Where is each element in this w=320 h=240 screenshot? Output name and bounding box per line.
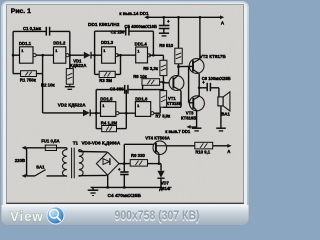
svg-text:DD1.6: DD1.6 (135, 97, 148, 102)
wire R3 left (95, 73, 100, 76)
node к выв.7 DD1 (186, 125, 190, 129)
svg-text:С1 0,1мк: С1 0,1мк (23, 26, 42, 31)
wire VT3 emitter + ground (195, 110, 198, 128)
wire C1 right drop (68, 31, 71, 55)
svg-text:BA1: BA1 (221, 112, 230, 117)
svg-text:VD7: VD7 (161, 180, 170, 185)
wire R4 left (96, 127, 102, 130)
svg-text:VT2 КТ817Б: VT2 КТ817Б (200, 54, 227, 59)
svg-text:View: View (10, 209, 44, 224)
wire R7 bottom to VT1 emitter (163, 106, 181, 109)
wire VT4 emitter down (157, 153, 160, 163)
wire VD1 to DD1.3 (91, 54, 101, 57)
wire R3 right (115, 73, 120, 76)
wire C2 top (95, 30, 126, 33)
svg-text:R1 750к: R1 750к (20, 77, 37, 82)
wire bottom rail (91, 186, 161, 189)
svg-text:VD3-VD6 К,Д906А: VD3-VD6 К,Д906А (82, 141, 121, 146)
wire left vertical (12, 31, 15, 73)
svg-text:С4 470мкХ25Б: С4 470мкХ25Б (108, 193, 142, 199)
wire BA1 to ground (219, 106, 222, 128)
resistor R3 3М (99, 71, 115, 77)
svg-text:Д814Г: Д814Г (159, 186, 172, 191)
wire R1 right (36, 72, 42, 75)
wire DD1.1 input (13, 54, 19, 57)
svg-text:R3 3М: R3 3М (99, 78, 112, 83)
wire VT2 emitter (198, 74, 201, 96)
svg-text:С2 150: С2 150 (111, 29, 125, 34)
wire R6 left drop (141, 85, 144, 89)
wire R1 left (13, 72, 21, 75)
node A arrow bottom (213, 144, 229, 147)
svg-text:R7 3,9к: R7 3,9к (155, 114, 171, 119)
wire R6 right (160, 81, 164, 84)
svg-text:С5 4000мкХ16Б: С5 4000мкХ16Б (124, 24, 157, 29)
svg-text:DD1.3: DD1.3 (101, 40, 114, 45)
svg-text:900x758 (307 КВ): 900x758 (307 КВ) (115, 208, 200, 223)
wire C3 mid drop (125, 90, 128, 129)
wire bridge minus down (106, 175, 109, 187)
wire DD1.2 out (69, 54, 84, 57)
svg-text:R2 10к: R2 10к (41, 82, 55, 87)
transformer core (71, 148, 73, 179)
svg-text:R8 510: R8 510 (159, 43, 173, 48)
speaker BA1 (217, 88, 220, 97)
ground under R2 (69, 84, 71, 87)
wire C1 top (13, 30, 46, 33)
resistor R2 10k (68, 55, 71, 68)
scan bottom shadow line (6, 202, 243, 205)
wire feedback vertical (41, 55, 44, 113)
svg-text:DD1 К561ЛН2: DD1 К561ЛН2 (88, 22, 120, 28)
svg-text:FU1 0,5А: FU1 0,5А (41, 138, 59, 143)
svg-text:DD1.2: DD1.2 (53, 41, 66, 46)
svg-text:Рис. 1: Рис. 1 (11, 8, 31, 15)
svg-text:R5 3,3к: R5 3,3к (143, 66, 159, 71)
diode VD1 КД522А (84, 52, 91, 59)
wire DD1.3 out (117, 54, 136, 57)
transistor VT1 КТ315Б (169, 76, 184, 91)
svg-text:КТ816Б: КТ816Б (181, 115, 196, 120)
wire DD1.6 out (154, 112, 160, 115)
svg-text:DD1.4: DD1.4 (135, 42, 148, 47)
wire secondary top (77, 150, 80, 152)
svg-text:DD1.1: DD1.1 (19, 41, 32, 46)
zener VD7 Д814Г (160, 164, 163, 171)
svg-text:КТ315Б: КТ315Б (167, 101, 182, 106)
svg-text:КД522А: КД522А (70, 63, 87, 68)
svg-text:R10 9,1: R10 9,1 (195, 150, 210, 155)
svg-text:VD1: VD1 (73, 58, 82, 63)
wire C3 feedback (96, 88, 125, 91)
svg-text:+: + (167, 19, 170, 24)
wire bridge plus (119, 162, 130, 165)
ground bottom rail (92, 187, 95, 190)
svg-text:VD2 КД522А: VD2 КД522А (58, 103, 86, 108)
frame inner white bevel (3, 3, 247, 224)
transistor VT3 КТ816Б (189, 96, 204, 111)
resistor R7 3,9к (160, 91, 167, 108)
wire secondary bottom (77, 174, 80, 177)
node A arrow right (220, 15, 224, 19)
scan area background (6, 5, 243, 204)
wire DD1.4 out to R5 (149, 54, 163, 57)
wire DD1.5 out (119, 112, 135, 115)
wire base bus (179, 65, 194, 68)
capacitor C4 470мкХ25Б (123, 164, 126, 172)
ground under C5 (162, 29, 165, 34)
wire node DD1.1 out (36, 54, 53, 57)
resistor R1 750k (21, 71, 37, 77)
svg-text:VT4 КТ503А: VT4 КТ503А (145, 136, 170, 141)
toolbar (2, 205, 249, 224)
svg-text:+: + (202, 80, 205, 85)
svg-text:VT3: VT3 (186, 111, 194, 116)
svg-text:к выв.14 DD1: к выв.14 DD1 (119, 11, 149, 16)
wire R4 right (117, 127, 127, 130)
viewer frame (1, 1, 250, 226)
svg-text:Т1: Т1 (73, 140, 79, 145)
svg-text:R9 330: R9 330 (131, 153, 145, 158)
svg-text:С6 100мкХ25Б: С6 100мкХ25Б (202, 76, 231, 81)
svg-text:SA1: SA1 (36, 165, 45, 170)
resistor R10 9,1 (166, 144, 195, 147)
wire VT4 base (123, 144, 126, 163)
svg-text:DD1.5: DD1.5 (100, 97, 113, 102)
wire C2 left drop (93, 31, 96, 74)
wire C2 right drop (152, 31, 155, 55)
wire VD2 to DD1.5 (90, 112, 100, 115)
wire R5 to node (162, 76, 165, 91)
svg-text:VT1: VT1 (168, 96, 176, 101)
svg-text:R4 1,2М: R4 1,2М (101, 121, 118, 126)
svg-text:к выв.7 DD1: к выв.7 DD1 (165, 129, 191, 134)
wire VT2 collector (198, 17, 201, 59)
wire C3 left drop (95, 90, 98, 129)
magnifier icon (47, 207, 64, 224)
svg-text:220В: 220В (15, 158, 25, 163)
